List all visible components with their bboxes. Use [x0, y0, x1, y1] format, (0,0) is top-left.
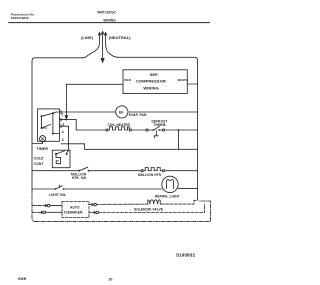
svg-text:SOLENOID VALVE: SOLENOID VALVE [134, 208, 163, 212]
svg-text:RED: RED [124, 78, 131, 82]
wire: evap fan to right rail [128, 111, 198, 113]
refrigerator lamp [162, 176, 178, 192]
bottom dashed return row [35, 201, 211, 221]
svg-text:(LINE): (LINE) [81, 35, 94, 40]
svg-text:COMPRESSOR: COMPRESSOR [136, 78, 166, 83]
coil heater element [106, 129, 108, 131]
cold control left contact [55, 153, 57, 155]
timer contact B [52, 112, 54, 114]
svg-text:THERM.: THERM. [154, 123, 167, 127]
header rule [9, 22, 210, 24]
svg-text:COLD: COLD [34, 156, 44, 160]
timer contact E [52, 133, 54, 135]
svg-text:WRT18CGC: WRT18CGC [97, 11, 116, 15]
light switch [55, 188, 57, 190]
wire: drop from defrost row to neutral return [178, 130, 180, 149]
wire: light switch to lamp [64, 188, 162, 190]
timer motor [40, 136, 46, 142]
wire: lamp to right rail [178, 188, 197, 190]
label COLD CONT [34, 156, 45, 166]
label (NEUTRAL) [109, 35, 132, 40]
terminal tick t4 [60, 125, 62, 128]
power cord ground conductor with up arrow and down arrowhead [101, 32, 104, 63]
label DEFROST THERM. [152, 119, 168, 127]
mullion heater element [141, 170, 143, 172]
svg-text:EF: EF [119, 111, 124, 115]
wire: light row from left rail [32, 188, 55, 190]
svg-text:CONT: CONT [34, 162, 45, 166]
wire: right rail (neutral bus) [197, 60, 199, 200]
auto icemaker box [62, 202, 89, 218]
terminal number 3 [62, 138, 64, 142]
svg-text:WIRING: WIRING [143, 85, 159, 90]
wire: defrost thermostat to right rail [165, 129, 198, 131]
icemaker feed row upper [32, 205, 44, 207]
wire: terminal 3 neutral return line [61, 144, 198, 150]
svg-text:HTR. SW.: HTR. SW. [72, 176, 87, 180]
terminal number 2 [61, 113, 63, 117]
svg-text:10: 10 [108, 277, 112, 281]
wire: inner rail down to timer terminal 1 [65, 84, 67, 116]
timer internal wire E to bottom terminal [53, 133, 60, 135]
label MULLION HTR. [138, 173, 162, 177]
wire: left rail (line bus) [31, 61, 33, 190]
model number text [97, 11, 116, 23]
junction dot inner rail on t1 wire [66, 119, 68, 121]
icemaker lower output [89, 211, 96, 213]
svg-text:ICEMAKER: ICEMAKER [64, 211, 83, 215]
solenoid valve coil [147, 200, 162, 204]
evap fan motor [116, 106, 128, 118]
svg-text:GWR: GWR [18, 277, 27, 281]
wire: left rail dashed lower part [32, 190, 35, 221]
compressor box [123, 70, 187, 94]
power cord neutral conductor with up arrow [104, 33, 118, 58]
junction dot t4 riser on t3 wire [68, 143, 70, 145]
svg-text:MULLION HTR.: MULLION HTR. [138, 173, 162, 177]
cold control bellows [56, 154, 61, 164]
wire: terminal 4 down to cold control [59, 126, 68, 153]
cold control switch lever [56, 151, 65, 154]
mullion heater switch [78, 170, 80, 172]
label LIGHT SW. [49, 193, 66, 197]
power cord line conductor with up arrow [82, 33, 101, 58]
terminal tick t2 [60, 110, 62, 113]
icemaker output to solenoid [89, 203, 93, 205]
label SOLENOID VALVE [134, 208, 163, 212]
svg-text:5995218845: 5995218845 [11, 16, 29, 20]
wire: coil heater to defrost thermostat [131, 129, 146, 131]
wire: mullion heater to right rail [165, 170, 198, 172]
svg-text:(NEUTRAL): (NEUTRAL) [109, 35, 132, 40]
svg-text:S193832: S193832 [176, 252, 195, 257]
publication number text [11, 13, 35, 21]
svg-text:SEE: SEE [150, 72, 159, 77]
label REFRIG. LIGHT [155, 194, 180, 198]
timer contact A [41, 115, 43, 117]
timer contact C [41, 127, 43, 129]
timer switch lever A-B [42, 112, 60, 116]
icemaker feed row lower [32, 211, 41, 213]
wire: red lead from inner rail to compressor [66, 83, 123, 85]
terminal number 1 [62, 122, 64, 126]
timer internal wire B down to E [52, 113, 54, 133]
connector arrowhead into timer terminal [65, 116, 68, 119]
wire: top left horizontal to left rail [32, 58, 82, 61]
timer label [37, 147, 49, 151]
svg-text:3: 3 [62, 138, 64, 142]
footer plate number [176, 252, 195, 257]
wire: white lead compressor to right rail [187, 83, 197, 85]
timer switch lever C to terminal 1 [42, 124, 51, 128]
junction dot defrost drop [178, 129, 180, 131]
defrost thermostat sensing element [154, 131, 158, 138]
wire: top right horizontal to right rail [118, 57, 198, 60]
label EVAP. FAN [129, 113, 147, 117]
svg-text:WHITE: WHITE [178, 78, 188, 82]
label AUTO ICEMAKER [64, 205, 83, 214]
defrost thermostat [146, 129, 148, 131]
wire: terminal 2 to evaporator fan [59, 111, 115, 113]
label MULLION HTR. SW. [71, 173, 87, 181]
timer internal wire A down to C [41, 116, 43, 128]
compressor box text [136, 72, 166, 90]
wire: terminal 1 jog down to defrost row [59, 120, 106, 130]
terminal tick t1 [60, 118, 62, 121]
wire: solenoid to rail jog [161, 200, 197, 204]
svg-text:AUTO: AUTO [70, 205, 80, 209]
svg-text:WIRING: WIRING [103, 18, 116, 22]
cold control box [52, 150, 70, 168]
terminal number 4 [62, 130, 64, 134]
svg-text:TIMER: TIMER [37, 147, 49, 151]
label COIL HEATER [108, 123, 131, 127]
svg-text:4: 4 [62, 130, 64, 134]
footer page number [108, 277, 112, 281]
svg-text:2: 2 [61, 113, 63, 117]
wire: mullion switch to mullion heater [89, 170, 141, 172]
svg-text:EVAP. FAN: EVAP. FAN [129, 113, 147, 117]
label WHITE [178, 78, 188, 82]
timer box [38, 109, 60, 141]
svg-text:LIGHT SW.: LIGHT SW. [49, 193, 66, 197]
label (LINE) [81, 35, 94, 40]
cold control right contact [66, 153, 68, 155]
footer initials [18, 277, 27, 281]
svg-text:REFRIG. LIGHT: REFRIG. LIGHT [155, 194, 180, 198]
label RED [124, 78, 131, 82]
wire: timer motor to left rail [32, 142, 43, 144]
wire: mullion row from left rail [32, 170, 79, 172]
